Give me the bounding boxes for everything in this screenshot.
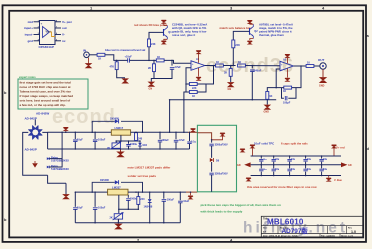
resistor R15 output (306, 62, 320, 68)
resistor R11 to ground (224, 66, 232, 83)
aux power flag (240, 149, 245, 153)
protection diode D7 over regulator (92, 118, 142, 133)
svg-text:noise of 1794 DAC chip was low: noise of 1794 DAC chip was lower at (20, 85, 71, 89)
svg-text:+: + (41, 22, 43, 26)
power flag end of V+ rail (191, 128, 196, 132)
svg-text:10u: 10u (275, 169, 280, 171)
svg-text:GD: GD (348, 164, 352, 167)
diode D6 in green box (210, 158, 220, 162)
cap bank gnd arrow right (341, 162, 352, 167)
ground under R11 (228, 83, 234, 92)
svg-text:1K: 1K (238, 61, 241, 64)
bank cap c27 (319, 165, 327, 176)
svg-text:1N5408: 1N5408 (100, 179, 109, 182)
wire rail drop to diodes (49, 132, 62, 167)
potentiometer RP1 (107, 141, 121, 150)
svg-text:3300uF50V: 3300uF50V (215, 173, 228, 176)
op-amp U2 (191, 58, 205, 71)
wire C1 to main row (130, 59, 156, 61)
aux flag bottom (246, 178, 251, 182)
svg-text:V-: V- (62, 33, 65, 37)
svg-text:GN: GN (228, 88, 232, 91)
svg-text:10u: 10u (263, 169, 267, 171)
wire loop to CT line (48, 175, 66, 183)
ground under R6 (149, 82, 155, 91)
diode D3 adj (138, 141, 147, 149)
svg-text:+47uF: +47uF (178, 139, 186, 142)
resistor R12 (238, 61, 280, 67)
green box rails (197, 125, 236, 192)
svg-text:LM337: LM337 (112, 185, 121, 189)
svg-text:10u: 10u (291, 159, 296, 161)
op-amp U1 DIP body (40, 21, 56, 45)
svg-text:10u: 10u (307, 159, 312, 161)
op-amp U1 pin 2 wire (34, 27, 40, 29)
svg-text:out: out (62, 26, 67, 30)
svg-text:thermal, glue them: thermal, glue them (259, 33, 284, 37)
svg-text:AD-842P: AD-842P (25, 148, 37, 152)
svg-text:pick these two caps the bigges: pick these two caps the biggest of all, … (201, 203, 282, 207)
bank cap c22 (303, 156, 311, 165)
svg-text:24K: 24K (235, 44, 240, 47)
svg-text:-: - (192, 68, 193, 71)
op-amp U1 right pin labels (62, 20, 73, 43)
resistor R17 adj (135, 133, 143, 141)
bank cap c24 (272, 165, 280, 176)
svg-text:GND: GND (319, 85, 325, 88)
op-amp U1 left pin labels (24, 20, 33, 43)
svg-text:10uF solid TPC: 10uF solid TPC (254, 142, 274, 146)
bridge top stub (34, 120, 36, 126)
svg-text:IN: IN (83, 49, 86, 53)
svg-text:-: - (281, 68, 282, 71)
bottom cells text (263, 235, 354, 238)
ground under RP1 (117, 149, 123, 157)
cap bank label row (254, 142, 345, 150)
bank cap c20 (272, 156, 280, 165)
svg-text:10u: 10u (323, 159, 328, 161)
wire U2 feedback down (197, 66, 213, 85)
svg-text:0.1u: 0.1u (191, 141, 196, 144)
power flag above U3 (285, 54, 290, 63)
svg-text:10uF: 10uF (77, 206, 83, 209)
svg-text:22K: 22K (192, 87, 197, 90)
svg-text:24K: 24K (151, 43, 156, 46)
svg-text:gnd: gnd (28, 39, 34, 43)
size cell (263, 227, 353, 233)
resistor R2 to ground (110, 60, 125, 78)
svg-text:1K: 1K (192, 95, 195, 98)
capacitor C4 parallel feedback (282, 88, 297, 105)
cap bank bottom bus (251, 175, 341, 177)
svg-text:OUT: OUT (318, 58, 325, 62)
svg-text:V+ red: V+ red (336, 146, 345, 150)
resistor R6 to ground (148, 60, 156, 81)
svg-text:V- blue: V- blue (334, 179, 343, 182)
svg-text:Size: Size (263, 227, 268, 229)
wire R1 to elbow (113, 55, 128, 61)
power flag above U2 (196, 50, 201, 63)
svg-text:6 caps split the rails: 6 caps split the rails (281, 142, 308, 146)
svg-text:expert notes: expert notes (19, 75, 36, 79)
svg-text:OPA604AP: OPA604AP (39, 45, 54, 49)
output jack CON2 (318, 58, 326, 69)
lower V- rail (75, 191, 109, 193)
resistor R9 after U2 (216, 61, 236, 67)
vertical supply wire pair (170, 100, 184, 133)
diode D5 lower (144, 192, 153, 223)
svg-text:+100uF: +100uF (97, 206, 106, 209)
cap bank top bus (251, 155, 341, 157)
bridge rectifier BR1 (29, 126, 43, 140)
svg-text:1000u: 1000u (130, 197, 138, 200)
capacitor C30 column (73, 192, 83, 223)
op-amp U1 pin 8 wire (55, 21, 61, 23)
blue note right of Q2 (259, 22, 293, 37)
V- rail to green box (128, 191, 186, 193)
ground under RP2 (115, 219, 121, 229)
capacitor C32 (187, 132, 196, 149)
V+ rail after regulator (131, 131, 188, 133)
svg-text:mid: mid (28, 20, 34, 24)
svg-text:100pF: 100pF (283, 102, 291, 105)
op-amp U1 internal orange wire (50, 32, 56, 37)
capacitor C10 (73, 132, 83, 149)
title block row divider 2 (261, 233, 363, 235)
regulator U5 adj pin wire (119, 195, 139, 213)
svg-text:MBL6010: MBL6010 (267, 217, 304, 226)
svg-text:1.0: 1.0 (351, 230, 356, 234)
wire U3 output (293, 65, 306, 67)
power flag below Q1 (161, 39, 167, 44)
svg-text:10u: 10u (323, 169, 328, 171)
svg-text:5107GBB2K03: 5107GBB2K03 (51, 167, 69, 171)
svg-text:240: 240 (138, 138, 143, 141)
op-amp U1 pin 4 wire (34, 40, 40, 42)
svg-text:+47uF: +47uF (174, 66, 182, 69)
ground under input jack (86, 58, 91, 68)
regulator U4 body (111, 126, 130, 135)
lower bottom line (75, 219, 180, 223)
svg-text:AD-842W: AD-842W (36, 112, 49, 116)
power flag end V- rail (188, 192, 193, 199)
svg-text:10u: 10u (263, 159, 267, 161)
svg-text:1K: 1K (283, 90, 286, 93)
bank cap c29 (259, 165, 267, 176)
svg-text:blue text is measured level va: blue text is measured level val (105, 48, 145, 52)
ground rail wire mid (186, 99, 276, 101)
capacitor C31 adj (126, 195, 137, 209)
bank cap c23 (319, 156, 327, 165)
green note under box (200, 203, 282, 214)
svg-text:GND: GND (264, 111, 270, 114)
svg-text:match sets balance bias: match sets balance bias (220, 26, 253, 30)
capacitor C15 column (93, 192, 106, 223)
wire Q1 base riser (149, 32, 164, 39)
svg-text:1K: 1K (98, 58, 101, 61)
capacitor C18 in green box (209, 140, 228, 158)
svg-text:+100uF: +100uF (97, 139, 106, 142)
diode D2 with relay label (47, 164, 69, 171)
capacitor C16 lower (162, 192, 175, 223)
cap bank V+ flag right (332, 145, 337, 157)
power flag below U3 (285, 68, 290, 81)
resistor R8 lower feedback (186, 84, 206, 98)
svg-text:5107GBB2K03: 5107GBB2K03 (51, 159, 69, 163)
diode D1 with relay label (47, 156, 69, 163)
resistor R4 (148, 39, 156, 60)
transistor Q2 (250, 24, 259, 38)
svg-text:1K: 1K (216, 61, 219, 64)
svg-text:+10uF: +10uF (182, 200, 190, 203)
svg-text:1000u: 1000u (130, 143, 138, 146)
op-amp U1 pin 7 wire (55, 27, 61, 29)
svg-text:240uF: 240uF (254, 70, 262, 73)
comment box text (20, 81, 74, 108)
resistor R10 (232, 40, 240, 66)
wire Q2 base riser (233, 31, 249, 40)
resistor R7 feedback (186, 68, 197, 90)
op-amp U1 triangle (43, 27, 50, 38)
svg-text:47K: 47K (110, 66, 115, 69)
capacitor C11 (93, 132, 106, 149)
regulator U4 adj pin wire (116, 135, 140, 141)
op-amp U1 pin 5 wire (55, 40, 61, 42)
svg-text:1K: 1K (157, 56, 160, 59)
ground under R2 (123, 79, 128, 83)
red segment V- into green box (186, 191, 197, 193)
capacitor C2 row branch (154, 60, 181, 78)
svg-text:Date: 2005-10-21 Drawn by: h: Date: 2005-10-21 Drawn by: hifidiy (263, 235, 299, 238)
svg-text:3300uF50V: 3300uF50V (215, 144, 228, 147)
transistor Q1 (164, 26, 173, 40)
svg-text:100uF: 100uF (162, 139, 170, 142)
svg-text:solder set true pads: solder set true pads (128, 174, 157, 178)
power flag below Q2 (247, 39, 253, 45)
svg-text:10u: 10u (275, 159, 280, 161)
svg-text:2K: 2K (110, 217, 113, 220)
capacitor C14 (174, 132, 185, 149)
capacitor C1 series (125, 56, 133, 63)
svg-text:Talema toroid case, and over 2: Talema toroid case, and over 2% rise (20, 90, 72, 94)
svg-text:10uF: 10uF (77, 139, 83, 142)
svg-text:if input stage swaps, so keep: if input stage swaps, so keep matched (20, 94, 74, 98)
capacitor C19 in green box (209, 162, 228, 192)
resistor R5 on main row (155, 56, 191, 64)
capacitor C12 adj (126, 141, 137, 149)
wire U3 feedback loop (292, 66, 301, 88)
bank cap c28 (259, 156, 267, 165)
svg-text:input+: input+ (24, 26, 33, 30)
red segment V+ into green box (188, 131, 197, 133)
op-amp U1 pin 6 wire (55, 34, 61, 36)
cap bank mid bus (251, 164, 341, 166)
svg-text:2K: 2K (148, 67, 151, 70)
capacitor C17 lower (178, 192, 189, 223)
svg-text:1N4: 1N4 (142, 144, 147, 147)
comment box green (18, 75, 88, 109)
svg-text:Q2: Q2 (254, 30, 258, 33)
svg-text:1N5408: 1N5408 (110, 118, 119, 121)
title block row divider 1 (261, 225, 363, 227)
capacitor C3 branch (250, 66, 262, 100)
wire feedback to rail (170, 92, 186, 100)
bank cap c26 (303, 165, 311, 176)
protection diode D4 over regulator (92, 179, 142, 192)
zero volt line upper psu (48, 148, 190, 150)
svg-text:first stage gain set here and: first stage gain set here and the total (20, 81, 71, 85)
input jack CON1 (83, 49, 89, 58)
svg-text:+10uF: +10uF (125, 56, 133, 59)
bridge loop wires (23, 132, 48, 175)
cap bank V- flag bottom (326, 176, 342, 182)
bank cap c21 (287, 156, 295, 165)
red VD arrow left PSU (32, 161, 38, 168)
svg-text:1N5408: 1N5408 (144, 206, 153, 209)
op-amp U1 pin numbers (38, 20, 58, 41)
bank cap c25 (287, 165, 295, 176)
svg-text:10u: 10u (291, 169, 296, 171)
V+ rail wire (48, 131, 112, 133)
ground under R14 (264, 105, 270, 114)
op-amp U1 pin 1 wire (34, 21, 40, 23)
svg-text:1K: 1K (269, 95, 272, 98)
resistor R14 to ground (266, 88, 276, 105)
svg-text:LM317: LM317 (115, 126, 124, 130)
svg-text:GD: GD (237, 164, 241, 167)
svg-text:+100uF: +100uF (165, 198, 174, 201)
svg-text:Sheet 1 of 1: Sheet 1 of 1 (341, 235, 354, 238)
red wire inside green box top (197, 133, 211, 140)
svg-text:with thick leads to the supply: with thick leads to the supply (200, 210, 243, 214)
op-amp U1 pin 3 wire (34, 34, 40, 36)
wire input jack to R1 (89, 54, 97, 56)
svg-text:input-: input- (25, 33, 33, 37)
title block outline (261, 216, 363, 237)
svg-text:2K: 2K (224, 72, 227, 75)
potentiometer RP2 (110, 213, 124, 221)
power flag below U2 (196, 68, 201, 80)
ground under output jack (319, 69, 326, 87)
op-amp U3 (280, 58, 293, 71)
resistor R16 (137, 192, 145, 209)
svg-text:note LM317 LM337 pads differ: note LM317 LM337 pads differ (128, 166, 172, 170)
svg-text:240: 240 (140, 198, 145, 201)
svg-text:File: mbl6010: File: mbl6010 (321, 236, 336, 238)
regulator U5 body (108, 185, 128, 195)
cap bank V+ flag left (250, 145, 255, 157)
blue note right of Q1 (171, 22, 207, 37)
power flag on V+ rail (63, 127, 68, 132)
svg-text:a few mA, or the op amp will c: a few mA, or the op amp will clip. (20, 103, 66, 107)
svg-text:2K: 2K (107, 147, 110, 150)
svg-text:nc: nc (62, 39, 66, 43)
svg-text:sets here, best around small l: sets here, best around small level of (20, 99, 71, 103)
power flag above Q2 (247, 20, 253, 24)
capacitor C13 (158, 132, 169, 149)
svg-text:AD797版: AD797版 (282, 226, 309, 235)
resistor R13 feedback (276, 69, 291, 93)
power flag above Q1 (161, 20, 167, 26)
resistor R1 (97, 53, 113, 60)
svg-text:this area reserved for more fi: this area reserved for more filter caps … (247, 185, 317, 189)
svg-text:V+ pwr: V+ pwr (62, 20, 73, 24)
cap bank gnd arrow left (237, 162, 251, 167)
ground on CT line (63, 183, 68, 199)
svg-text:noise sort, glue it: noise sort, glue it (172, 33, 195, 37)
svg-text:GN: GN (149, 88, 153, 91)
wire U2 output (205, 65, 216, 67)
svg-text:10u: 10u (307, 169, 312, 171)
title block col dividers (278, 226, 347, 238)
power flag in green box (212, 133, 225, 140)
